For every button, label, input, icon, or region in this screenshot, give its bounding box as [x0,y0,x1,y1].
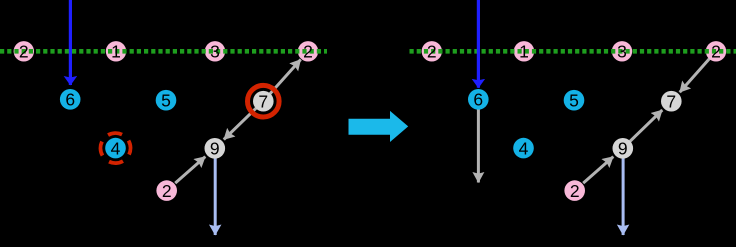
left: node 2b (list) [298,41,318,61]
left: node 7 [253,91,274,112]
right: node 2 (list) [422,41,442,61]
right: node 9 [613,138,634,159]
svg-text:7: 7 [666,92,676,112]
svg-text:2: 2 [711,42,721,62]
left: node 2 (list) [14,41,34,61]
svg-text:7: 7 [258,92,268,112]
left: node 3 (list) [205,41,225,61]
left: node 9 [205,138,226,159]
svg-text:6: 6 [473,90,483,110]
svg-text:4: 4 [519,138,529,158]
right: edge 2->9 [583,157,613,184]
svg-text:1: 1 [519,42,529,62]
left: node 6 [60,89,81,110]
left: red solid ring around 7 [247,85,279,117]
svg-text:6: 6 [65,90,75,110]
right: node 3 (list) [612,41,632,61]
left: blue insert arrow [69,0,72,85]
left: node 4 [105,138,126,159]
svg-text:9: 9 [618,139,628,159]
svg-text:5: 5 [569,91,579,111]
left: node 2c [156,180,177,201]
svg-text:5: 5 [161,91,171,111]
svg-text:9: 9 [210,139,220,159]
left: edge 7->9 [224,101,263,139]
left: node 5 [156,90,177,111]
svg-text:3: 3 [210,42,220,62]
left: edge 7->2top [263,60,300,102]
right: node 2b (list) [706,41,726,61]
left: down arrow from 9 [214,150,217,235]
right: down arrow from 9 [622,150,625,235]
right: node 1 (list) [514,41,534,61]
right: node 7 [661,91,682,112]
svg-text:2: 2 [162,181,172,201]
right: edge 2top->7 [680,51,716,92]
svg-text:2: 2 [303,42,313,62]
right: node 6 [468,89,489,110]
left: dashed list line [0,49,327,54]
right: edge 9->7 [623,110,663,148]
svg-text:2: 2 [19,42,29,62]
right: down arrow from 6 [477,100,480,183]
right: node 2c [564,180,585,201]
big transition arrow [349,111,409,142]
svg-text:3: 3 [617,42,627,62]
svg-text:2: 2 [427,42,437,62]
svg-text:2: 2 [570,181,580,201]
left: edge 2->9 [175,157,205,184]
svg-text:4: 4 [111,138,121,158]
left: node 1 (list) [106,41,126,61]
svg-text:1: 1 [111,42,121,62]
left: red dashed ring around 4 [95,128,136,169]
right: node 4 [513,138,534,159]
right: node 5 [564,90,585,111]
right: dashed list line [410,49,736,54]
right: blue insert arrow [477,0,480,88]
